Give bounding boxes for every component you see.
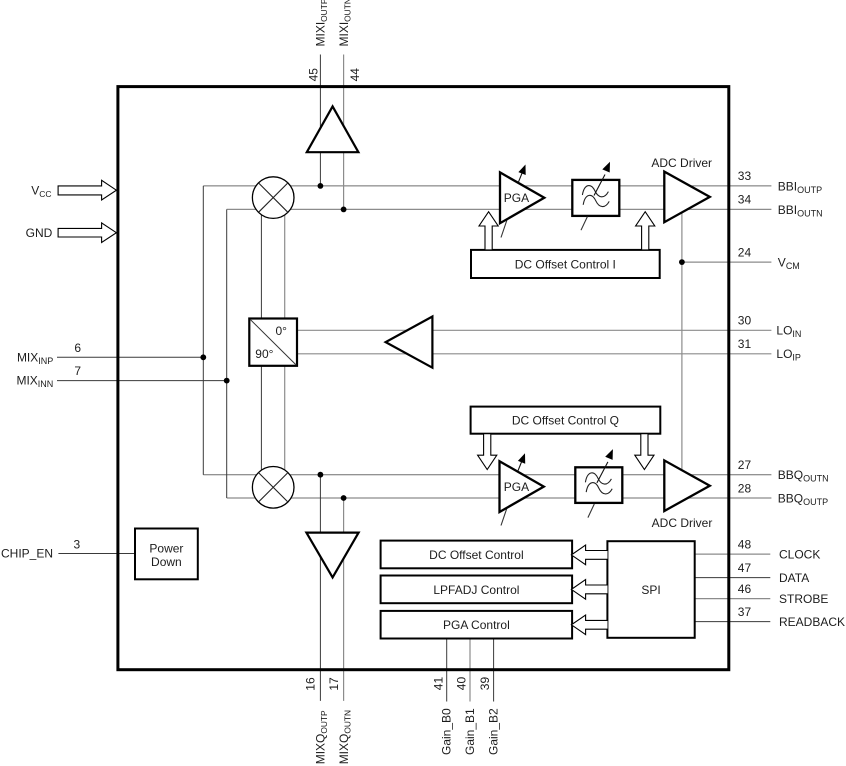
svg-text:LPFADJ Control: LPFADJ Control (433, 583, 519, 597)
wire Gain_B1 pin 40 (469, 639, 471, 702)
svg-text:7: 7 (74, 364, 81, 378)
wire Gain_B0 pin 41 (446, 639, 448, 702)
PGA I gain slash (501, 216, 508, 238)
SPI arrow to DC offset control (571, 545, 607, 565)
svg-text:CLOCK: CLOCK (779, 548, 820, 562)
junction dot 16 (318, 472, 324, 478)
LPF Q adjust slash (588, 504, 594, 518)
wire BBI lower (mixer I to pin 34) (227, 208, 772, 210)
LPF I waves (582, 186, 609, 207)
LPF Q box (575, 467, 622, 503)
svg-text:ADC Driver: ADC Driver (651, 156, 712, 170)
svg-text:CHIP_EN: CHIP_EN (1, 547, 53, 561)
svg-text:DC Offset Control Q: DC Offset Control Q (512, 414, 619, 428)
svg-text:47: 47 (738, 561, 752, 575)
ADC driver Q (664, 460, 710, 511)
svg-text:DATA: DATA (779, 571, 809, 585)
svg-text:3: 3 (74, 537, 81, 551)
svg-text:PGA Control: PGA Control (443, 618, 510, 632)
wire LO 0deg to mixer I left (260, 198, 262, 319)
svg-text:READBACK: READBACK (779, 615, 845, 629)
LPF Q waves (585, 473, 612, 494)
wire CHIP_EN pin 3 (58, 553, 135, 555)
svg-text:33: 33 (738, 169, 752, 183)
ADC driver I (664, 172, 710, 223)
LO input amp (386, 317, 433, 368)
wire VCM pin 24 stub (682, 261, 772, 263)
wire BBI upper (mixer I to pin 33) (203, 185, 771, 187)
wire DATA pin 47 (695, 577, 771, 579)
wire LO 90deg to mixer Q right (284, 366, 286, 488)
svg-text:44: 44 (348, 68, 362, 82)
LPFADJ control box (381, 576, 572, 604)
wire pin 16 MIXQOUTP (319, 475, 321, 701)
svg-text:DC Offset Control I: DC Offset Control I (515, 258, 616, 272)
svg-text:PGA: PGA (504, 480, 529, 494)
PGA Q amp (500, 461, 544, 512)
svg-text:Gain_B1: Gain_B1 (463, 708, 477, 755)
wire VCM vertical (681, 209, 683, 498)
DC offset control box (SPI) (381, 541, 572, 569)
wire pin 17 MIXQOUTN (343, 498, 345, 701)
svg-text:39: 39 (478, 677, 492, 691)
junction dot MIXINN (224, 378, 230, 384)
SPI box (607, 541, 694, 638)
svg-text:Power: Power (149, 541, 183, 555)
wire LOIN pin 30 (297, 329, 771, 331)
junction dot 44 (341, 207, 347, 213)
svg-text:34: 34 (738, 193, 752, 207)
svg-text:Gain_B2: Gain_B2 (487, 708, 501, 755)
svg-text:DC Offset Control: DC Offset Control (429, 548, 523, 562)
junction dot VCM (679, 259, 685, 265)
wire MIX input vertical N (226, 209, 228, 498)
buffer amp bottom (MIXQ outputs) (306, 533, 358, 578)
wire LO 0deg to mixer I right (284, 198, 286, 319)
DC offset I up arrow left (479, 212, 498, 250)
svg-text:SPI: SPI (641, 583, 660, 597)
wire STROBE pin 46 (695, 598, 771, 600)
LPF I adjust arrow (594, 162, 610, 196)
PGA Q gain arrow (518, 453, 525, 471)
svg-text:27: 27 (738, 458, 752, 472)
LPF I adjust slash (581, 217, 587, 231)
VCC input arrow (58, 180, 116, 200)
svg-text:30: 30 (738, 314, 752, 328)
svg-text:ADC Driver: ADC Driver (652, 516, 713, 530)
DC offset control Q box (471, 407, 661, 434)
mixer I (252, 177, 294, 219)
wire LOIP pin 31 (297, 353, 771, 355)
svg-text:GND: GND (26, 226, 53, 240)
LPF I box (572, 180, 619, 216)
wire CLOCK pin 48 (695, 553, 771, 555)
wire pin 45 MIXIOUTP (319, 55, 321, 186)
svg-text:24: 24 (738, 245, 752, 259)
wire MIXINN pin 7 (57, 380, 227, 382)
buffer amp top (MIXI outputs) (307, 106, 359, 152)
GND input arrow (58, 223, 116, 243)
mixer Q (252, 467, 294, 509)
svg-text:48: 48 (738, 537, 752, 551)
svg-text:16: 16 (304, 677, 318, 691)
wire LO 90deg to mixer Q left (260, 366, 262, 488)
SPI arrow to LPFADJ control (571, 580, 607, 600)
svg-text:37: 37 (738, 605, 752, 619)
SPI arrow to PGA control (571, 615, 607, 635)
DC offset Q down arrow right (635, 434, 654, 470)
svg-text:6: 6 (74, 341, 81, 355)
power down box (135, 529, 198, 580)
svg-text:Down: Down (151, 555, 182, 569)
svg-text:STROBE: STROBE (779, 592, 828, 606)
LPF Q adjust arrow (597, 449, 613, 483)
DC offset I up arrow right (636, 212, 655, 250)
svg-text:45: 45 (307, 68, 321, 82)
junction dot 17 (341, 495, 347, 501)
wire Gain_B2 pin 39 (493, 639, 495, 702)
PGA control box (381, 611, 572, 639)
PGA I amp (500, 172, 544, 223)
svg-text:41: 41 (431, 677, 445, 691)
phase splitter 0/90 (249, 319, 297, 366)
chip boundary (118, 87, 729, 670)
wire READBACK pin 37 (695, 621, 771, 623)
svg-text:46: 46 (738, 582, 752, 596)
DC offset Q down arrow left (478, 434, 497, 470)
wire MIXINP pin 6 (57, 356, 203, 358)
svg-text:Gain_B0: Gain_B0 (440, 708, 454, 755)
junction dot 45 (318, 183, 324, 189)
wire BBQ lower (mixer Q to pin 28) (227, 497, 772, 499)
svg-text:28: 28 (738, 481, 752, 495)
PGA Q gain slash (501, 504, 508, 526)
svg-text:PGA: PGA (504, 191, 529, 205)
svg-text:17: 17 (327, 677, 341, 691)
junction dot MIXINP (200, 354, 206, 360)
svg-text:90°: 90° (255, 347, 273, 361)
DC offset control I box (471, 250, 660, 278)
svg-text:0°: 0° (276, 324, 288, 338)
svg-text:31: 31 (738, 337, 752, 351)
wire pin 44 MIXIOUTN (343, 55, 345, 210)
wire BBQ upper (mixer Q to pin 27) (203, 474, 771, 476)
svg-text:40: 40 (455, 677, 469, 691)
wire MIX input vertical P (202, 186, 204, 475)
PGA I gain arrow (518, 165, 525, 183)
